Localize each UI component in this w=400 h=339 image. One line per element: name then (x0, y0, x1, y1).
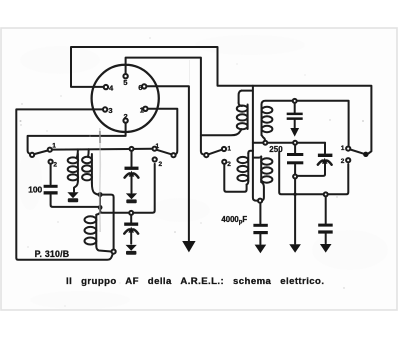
node 295/176 (293, 175, 297, 179)
svg-text:1: 1 (156, 143, 160, 150)
svg-text:2: 2 (124, 112, 128, 121)
node C1 top (130, 147, 134, 151)
trimmer at 325 (324, 143, 326, 154)
wire T2 central vertical (253, 86, 258, 201)
tube pin 2 (123, 118, 127, 122)
capacitor mid at 295 (294, 145, 296, 153)
switch S3 pivot (204, 153, 208, 157)
svg-text:100: 100 (28, 185, 42, 195)
coil T2b primary (248, 151, 253, 154)
wire pin2 to switch S1 feed (28, 123, 126, 154)
ground T1 primary (67, 192, 78, 201)
capacitor 4000pF (259, 203, 261, 224)
switch S1 terminal 2 (49, 160, 53, 164)
tube socket circle (92, 65, 159, 132)
capacitor top at 295 (294, 103, 296, 113)
coil L3 oscillator (96, 213, 100, 215)
T1 primary bottom lead (74, 181, 78, 192)
wire S3 terminal2 to T2b primary bottom (224, 164, 246, 192)
switch S4 blade (350, 150, 363, 154)
node 4000pF top (258, 199, 262, 203)
ground 4000pF (255, 245, 267, 254)
T1 secondary bottom lead to junction (92, 183, 99, 195)
junction blob B (98, 205, 103, 210)
T2a secondary bottom (262, 135, 266, 141)
svg-text:Il gruppo AF della A.R.E.L.: s: Il gruppo AF della A.R.E.L.: schema elet… (66, 276, 324, 287)
wire smear segment (99, 195, 101, 207)
T2a primary top bar (242, 90, 252, 92)
svg-text:1: 1 (227, 145, 231, 152)
svg-text:P. 310/B: P. 310/B (35, 249, 70, 259)
ground 325 (320, 244, 332, 253)
wire pin5 branch to coil L4 bottom (201, 129, 242, 135)
coil T2a secondary top lead to rail (262, 101, 349, 147)
tube pin 6 (142, 84, 146, 88)
wire pin5 to T2 primary and band switch blade (126, 58, 204, 155)
blade contact dot (363, 152, 368, 157)
wire lower rail to S2 terminal2 (100, 164, 155, 213)
svg-text:2: 2 (341, 158, 345, 165)
svg-text:2: 2 (53, 162, 57, 169)
svg-text:6: 6 (138, 83, 142, 92)
switch S1 blade (34, 151, 48, 155)
node osc coil bottom (112, 250, 116, 254)
junction blob A (98, 192, 103, 197)
coil T1 secondary (91, 154, 93, 183)
ground C1 (126, 193, 137, 202)
switch S3 terminal 2 (222, 160, 226, 164)
node C2 top (129, 211, 133, 215)
tube pin 3 (103, 107, 107, 111)
wire pin4 top loop to right switch feed (71, 47, 371, 154)
wire down to ground (294, 179, 296, 244)
wire rail 143 (253, 142, 325, 144)
switch S3 terminal 1 (222, 147, 226, 151)
coil T2a primary (247, 105, 249, 130)
ground 295 (289, 244, 301, 253)
svg-text:1: 1 (52, 142, 56, 149)
wire pin6 to ground line (147, 86, 189, 241)
node 325 rail194 (324, 192, 328, 196)
switch S1 pivot (30, 153, 34, 157)
scan fold smear (99, 128, 102, 232)
coil T1 primary (77, 154, 79, 181)
wire riser 250 and rail 194 (279, 152, 348, 195)
switch S2 terminal 1 (153, 147, 157, 151)
wire cap100 bottom to rail (51, 195, 98, 207)
tube pin 5 (123, 74, 127, 78)
L3 bottom lead (96, 246, 111, 252)
ground (182, 241, 195, 252)
capacitor 100 (44, 185, 58, 188)
trimmer C2 (130, 215, 132, 222)
switch S1 terminal 1 (48, 148, 52, 152)
node cap chain mid (293, 141, 297, 145)
tube pin 4 (104, 85, 108, 89)
wire pin1 to switch S2 blade (148, 109, 178, 155)
switch S2 blade (157, 150, 172, 155)
svg-text:1: 1 (341, 145, 345, 152)
switch S3 blade (209, 150, 222, 155)
T1 primary top lead (77, 149, 78, 157)
svg-text:3: 3 (108, 106, 112, 115)
tube pin 1 (143, 107, 147, 111)
svg-text:2: 2 (159, 161, 163, 168)
svg-text:2: 2 (227, 161, 231, 168)
node rail 143 left (263, 141, 267, 145)
T1 secondary top lead (87, 149, 90, 157)
wire rail to T1 tops and C1 node and S2 terminal1 (52, 148, 153, 151)
capacitor bottom right (325, 196, 327, 223)
node cap chain top (293, 99, 297, 103)
trimmer C1 (131, 151, 133, 166)
coil T2a secondary (261, 105, 263, 136)
ground C2 (126, 245, 137, 254)
switch S4 terminal 2 (346, 158, 350, 162)
junction 295 rail (293, 193, 296, 196)
switch S1 terminal2 wire to cap 100 (50, 164, 52, 184)
coil T2b secondary (253, 157, 261, 158)
switch S2 pivot (171, 153, 175, 157)
switch S2 terminal 2 (153, 157, 157, 161)
switch S4 terminal 1 (346, 147, 350, 151)
wire pin3 to left rail and bottom rail (16, 109, 113, 259)
scan noise (20, 37, 364, 306)
svg-text:250: 250 (269, 145, 283, 154)
wire junction A to riser (100, 195, 114, 250)
